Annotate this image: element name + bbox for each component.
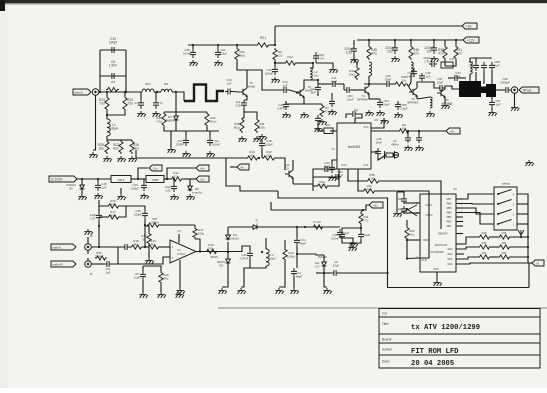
svg-text:RB2: RB2 [447,221,452,224]
wire [324,268,327,288]
svg-text:100µF: 100µF [134,212,142,216]
capacitor C52 [392,44,398,54]
svg-text:PIC16F628: PIC16F628 [430,250,444,254]
wire osc2 [404,212,420,214]
capacitor C61 [104,261,112,267]
wire [330,169,339,177]
ground [128,156,136,162]
diode D9 1N4001 [80,184,85,191]
wire VDD [407,239,420,241]
node CLR [406,257,408,259]
net flag +5 right [532,260,544,266]
wire [491,71,493,84]
capacitor C5 [431,44,437,54]
wire [445,60,456,66]
wire [209,131,211,137]
svg-text:C51: C51 [450,57,455,61]
node [106,114,108,116]
wire pin RB6 [456,203,463,205]
wire [265,238,267,249]
wire SDA [348,169,366,181]
wire [286,101,304,104]
wire 9v branch [167,168,196,179]
capacitor C44c [329,164,335,173]
resistor R29 [235,47,239,61]
wire [185,131,187,137]
svg-text:R62: R62 [366,187,372,191]
svg-text:10Ko: 10Ko [349,72,356,76]
ground [314,126,322,132]
capacitor C11 [330,81,338,87]
svg-text:5o: 5o [142,237,146,241]
svg-text:47o: 47o [413,51,419,55]
svg-text:18o: 18o [326,123,331,127]
wire [97,179,99,182]
ground [350,57,358,63]
wire loop top [100,49,126,51]
ground [175,292,183,298]
resistor R39 [394,82,407,86]
svg-text:1Ko: 1Ko [250,153,255,157]
ground above switch [525,160,533,166]
node [258,157,260,159]
wire [275,62,284,64]
svg-text:switch: switch [502,182,511,186]
wire [417,82,437,88]
ground [214,60,222,66]
stripline filter block 2 [486,84,496,97]
wire pin RA4 [456,243,463,245]
wire [416,96,418,99]
wire [296,246,298,268]
svg-text:33pF: 33pF [385,77,392,81]
svg-text:100nF: 100nF [212,142,220,146]
resistor R3a [170,177,183,181]
svg-text:10o: 10o [314,73,319,77]
node [386,272,388,274]
wire T3 emitter [303,97,305,104]
svg-text:1Ko: 1Ko [410,232,415,236]
wire [164,178,170,180]
wire [378,155,386,160]
svg-text:100o: 100o [208,246,215,250]
wire [296,227,298,237]
node [362,209,364,211]
wire [279,261,285,287]
svg-text:b.f+20: b.f+20 [313,220,321,224]
wire [192,45,194,49]
node [217,44,219,46]
ground [318,119,326,125]
node video a [99,91,101,93]
svg-text:RB4: RB4 [447,212,452,215]
wire routing A [278,191,529,288]
svg-text:video in: video in [74,90,83,94]
wire [406,240,408,259]
node rail2 c [410,39,412,41]
wire [227,252,229,258]
wire [491,97,493,99]
svg-text:10pF: 10pF [437,80,444,84]
wire [293,183,313,185]
wire [323,255,325,261]
transistor T5 [437,89,445,97]
wire [160,224,195,226]
capacitor C35 [142,210,148,219]
svg-text:1pF: 1pF [496,102,501,106]
svg-text:20 04 2005: 20 04 2005 [411,360,454,368]
ground [290,288,298,294]
node [199,250,201,252]
transistor T4 [361,86,369,94]
wire [368,40,370,45]
svg-text:Title!: Title! [382,322,389,326]
svg-text:b8pF: b8pF [300,241,307,245]
svg-text:8K2n: 8K2n [210,119,217,123]
svg-text:5.6A: 5.6A [341,164,346,167]
net flag +9v out [196,165,209,171]
wire RA1 row [456,257,478,259]
svg-text:RA4/TOCKI: RA4/TOCKI [435,244,448,247]
svg-text:1000pF: 1000pF [500,80,510,84]
wire [352,89,364,91]
ground regulator [117,194,125,200]
svg-text:k17511: k17511 [177,253,186,256]
svg-text:8k2o: 8k2o [110,213,117,217]
svg-text:VSS: VSS [433,267,438,271]
wire [356,63,358,66]
ground [137,111,145,117]
svg-text:6.4L: 6.4L [364,164,369,167]
IC U3 tea5055 [337,123,371,169]
svg-text:R3: R3 [111,80,115,84]
svg-text:4812: 4812 [118,178,125,182]
capacitor C22 [225,89,233,95]
node [418,130,420,132]
wire [340,238,353,241]
svg-text:+7µF: +7µF [337,173,344,177]
svg-text:VCC: VCC [363,126,368,129]
wire [183,178,196,180]
wire [339,272,388,274]
diode D5 [226,258,231,265]
svg-text:1µF: 1µF [226,81,231,85]
schematic ink layer [49,23,544,368]
wire [444,60,446,66]
svg-text:10p: 10p [354,108,359,112]
wire [342,228,361,231]
svg-text:330Ko: 330Ko [95,254,104,258]
resistor R30 [162,112,166,127]
capacitor C31 [339,231,345,240]
resistor R10 [246,156,259,160]
ground [218,288,226,294]
wire [520,235,522,237]
diode D4 [226,234,231,241]
svg-text:7µ: 7µ [159,101,163,105]
wire [120,206,126,217]
net flag 12v [149,165,162,171]
antenna mark [518,230,524,235]
svg-text:C32: C32 [346,50,352,54]
wire [514,94,516,106]
svg-text:RB0/INT: RB0/INT [438,233,448,236]
switch S1 [494,187,517,230]
node [406,239,408,241]
wire pin RB4 [456,212,463,214]
resistor R53 [405,226,409,240]
capacitor C36 [473,62,479,71]
net flag +5v out [196,176,209,182]
capacitor C10b [337,229,343,238]
node [351,242,353,244]
wire [312,63,314,68]
capacitor C28 [122,244,130,250]
resistor R12 [284,61,297,65]
wire [160,284,162,292]
zener D6 [188,185,193,192]
ground [328,175,336,181]
wire pin RB0 [456,233,463,235]
capacitor C43b [322,166,330,172]
svg-text:8v: 8v [241,165,245,169]
wire [106,92,108,96]
svg-text:R44: R44 [502,241,507,245]
svg-text:47o: 47o [174,174,179,178]
svg-text:FIT ROM LFD: FIT ROM LFD [411,348,459,356]
resistor R20 [159,271,163,284]
resistor R26 [130,140,134,154]
crystal X1 [385,151,395,159]
wire [227,227,229,234]
wire [354,55,357,63]
svg-text:C36: C36 [468,63,474,67]
svg-text:+7o: +7o [364,218,369,222]
svg-text:Board!: Board! [382,337,392,341]
switch pole 2 [497,210,512,216]
wire opamp out [196,251,218,253]
wire [189,179,191,185]
svg-text:18nF: 18nF [376,140,383,144]
resistor R18 [130,245,143,249]
svg-text:R43: R43 [502,251,507,255]
wire [380,181,441,229]
wire [469,58,471,62]
svg-text:18p: 18p [398,198,403,201]
node [106,91,108,93]
svg-text:RB6: RB6 [447,203,452,206]
capacitor C38 [190,49,196,58]
node [520,236,522,238]
wire opamp minus [166,246,170,248]
svg-text:16µH: 16µH [269,256,276,260]
svg-text:22Ko: 22Ko [319,183,326,187]
node video b [125,91,127,93]
svg-text:1pF: 1pF [311,90,316,94]
svg-text:R9: R9 [164,82,168,86]
resistor R56 [95,256,107,260]
svg-text:1µF: 1µF [106,270,111,274]
wire [469,74,471,81]
ground [237,288,245,294]
wire [228,226,252,228]
delay line step trace [184,85,224,102]
resistor R58 [366,179,380,183]
svg-text:D9: D9 [69,186,73,190]
wire [106,136,108,140]
resistor R11 [359,212,363,225]
svg-text:+5: +5 [536,261,540,265]
wire [148,245,150,258]
resistor R36 [409,45,413,60]
wire feedback rise [98,221,100,247]
wire [491,236,498,238]
wire [284,240,286,248]
svg-text:C56: C56 [408,71,413,75]
wire [175,122,177,132]
wire [397,192,404,196]
ground [78,194,86,200]
ground [157,292,165,298]
wire osc1 [404,202,420,204]
ground [376,110,384,116]
node [227,251,229,253]
wire [138,179,144,182]
svg-text:1µF: 1µF [102,185,107,189]
wire [371,118,384,128]
wire [241,259,250,287]
resistor R3 [106,87,119,91]
wire [244,266,266,268]
wire T2 collector [246,70,247,88]
wire [118,257,166,264]
wire [528,262,532,264]
wire switch common [517,194,528,263]
wire loop top [313,176,339,178]
capacitor C17 [183,137,189,146]
svg-text:(bfr92): (bfr92) [247,84,256,88]
wire [218,251,242,254]
capacitor C46 [384,81,392,87]
wire [297,253,316,255]
resistor R47 [312,225,324,229]
wire [496,89,503,91]
diode D8 1N4148 [322,261,327,268]
wire [144,219,146,247]
resistor R41 [478,255,491,259]
wire bottom loop right [528,263,529,288]
svg-text:1.8µF: 1.8µF [346,97,354,101]
svg-text:0.5PF: 0.5PF [277,106,285,110]
ground [433,280,441,286]
wire varactor bus [164,111,207,113]
node [261,251,263,253]
capacitor C59 [405,135,411,143]
varactor DV BB805 [174,115,179,122]
node osc [406,208,408,210]
wire [460,77,466,79]
svg-text:J4: J4 [90,272,93,276]
capacitor C57 [489,99,495,108]
svg-text:R21: R21 [260,36,266,40]
wire [112,247,118,264]
svg-text:tx ATV 1200/1299: tx ATV 1200/1299 [411,324,480,332]
wire [247,70,262,88]
wire [346,114,350,118]
ground [323,288,331,294]
wire [233,91,239,94]
inductor L1 [107,119,110,136]
capacitor C41 [283,101,289,110]
capacitor C55 [395,101,401,110]
wire [483,71,485,84]
wire [363,205,369,210]
svg-text:+12v: +12v [467,38,475,42]
ground [275,288,283,294]
resistor R38 [443,45,447,60]
wire [418,131,420,135]
svg-text:Author!: Author! [382,348,392,352]
capacitor C54 [329,98,335,107]
node [97,178,99,180]
wire [107,111,125,115]
capacitor C30 [429,61,437,67]
wire [142,280,144,292]
ground [404,145,412,151]
node [166,178,168,180]
capacitor C58 [489,62,495,71]
scan streak above title block [218,307,547,308]
svg-text:100Ko: 100Ko [287,254,296,258]
svg-text:10µF: 10µF [134,275,141,279]
capacitor C4 [291,268,297,277]
wire CLR link [407,257,420,260]
node [236,44,238,46]
capacitor C49 [503,87,511,93]
ground [488,110,496,116]
ground [365,110,373,116]
wire opamp vee [179,260,181,288]
resistor R33 [205,112,209,127]
wire [491,256,498,258]
svg-text:audio-L: audio-L [52,245,62,249]
wire [124,92,126,96]
wire [243,108,245,118]
ground [117,156,125,162]
wire oscillator supply [188,44,256,46]
svg-text:R27: R27 [145,82,151,86]
node [312,62,314,64]
svg-text:8k2o: 8k2o [234,125,241,129]
resistor R23 [123,96,127,111]
wire pin RB5 [456,207,463,209]
resistor R31 [255,118,259,133]
svg-text:RB3: RB3 [447,216,452,219]
ground [258,134,266,140]
wire +9v rail [275,25,462,27]
wire [351,243,353,245]
wire [107,139,121,141]
wire [318,124,324,131]
resistor R25 [105,140,109,154]
capacitor C64 18p [401,206,407,214]
resistor R44 [498,245,511,249]
wire opamp vcc [178,234,180,243]
transistor T4b [409,88,417,96]
wire video shield [93,96,96,151]
wire VSS [436,272,438,280]
node rail2 e [455,39,457,41]
